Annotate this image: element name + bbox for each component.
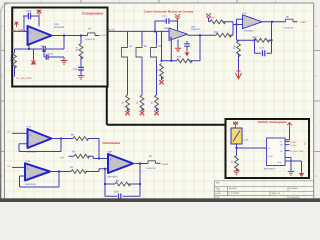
svg-text:COM: COM <box>268 155 273 158</box>
wire output U1A <box>52 35 88 37</box>
svg-text:C17: C17 <box>163 15 168 18</box>
resistor R40 to ground <box>231 148 239 171</box>
svg-text:Number: Number <box>229 187 237 190</box>
capacitor C17 decoupling <box>154 15 178 32</box>
junction S1 node <box>236 147 238 149</box>
svg-text:Switch Analogique: Switch Analogique <box>258 120 287 124</box>
svg-text:Potentiostat: Potentiostat <box>103 141 120 145</box>
wire U7A feedback loop <box>19 139 61 152</box>
wire U5A output <box>188 34 217 36</box>
svg-text:D_Mes: D_Mes <box>290 144 297 147</box>
title block <box>214 181 313 199</box>
title block text <box>216 182 300 200</box>
svg-text:U2A: U2A <box>243 12 248 15</box>
svg-text:-: - <box>30 142 31 146</box>
svg-text:GND: GND <box>277 161 282 164</box>
capacitor C15 in feedback <box>41 45 46 52</box>
ground red arrow below cap <box>185 50 190 56</box>
svg-text:MAX4251: MAX4251 <box>26 183 37 186</box>
power VCC arrow top <box>37 10 42 16</box>
svg-text:Comparateur: Comparateur <box>82 12 104 16</box>
wire U2A output <box>262 21 286 23</box>
ground red C18 <box>78 76 84 80</box>
zone labels <box>1 1 317 178</box>
wire V+ pin U5A <box>177 19 179 30</box>
svg-text:FUSE1-M: FUSE1-M <box>85 38 95 41</box>
wire feedback loop <box>15 36 65 50</box>
wire S1 to IC <box>237 144 267 148</box>
net label D1_HM_COM <box>285 150 303 153</box>
wire E2 input <box>12 166 25 168</box>
capacitor C19 feedback <box>254 39 273 56</box>
svg-text:U7B: U7B <box>26 160 31 163</box>
bottom dark band <box>0 198 320 202</box>
resistor R17 feedback <box>236 22 272 42</box>
junction feedback node <box>28 48 30 50</box>
ground red R40 <box>233 171 239 175</box>
junction U8A out <box>139 163 141 165</box>
jumper branch B2 <box>136 31 148 111</box>
wire IC gnd pins <box>285 158 302 172</box>
no-ERC cross B3 <box>154 111 158 115</box>
resistor R33 to ground <box>233 40 241 71</box>
ground red bars V- U5A <box>175 40 181 52</box>
svg-text:+: + <box>27 167 29 171</box>
capacitor C16 row <box>44 49 64 60</box>
svg-text:R12: R12 <box>177 56 182 59</box>
wire feedback column + input <box>170 38 172 61</box>
decoupling cap below U5A <box>184 41 190 50</box>
svg-text:-: - <box>170 30 171 33</box>
svg-text:D1_HM_COM: D1_HM_COM <box>17 77 32 80</box>
fuse B6 on Imes output <box>284 16 298 30</box>
svg-text:S_Mes: S_Mes <box>290 141 296 144</box>
svg-text:Date:: Date: <box>216 192 222 195</box>
svg-text:R34: R34 <box>214 31 219 34</box>
resistor R6 <box>61 134 108 160</box>
capacitor C18 vertical <box>73 67 84 75</box>
svg-text:FUSE1-M: FUSE1-M <box>284 27 294 30</box>
jumper branch B1 <box>122 31 134 111</box>
junction right branch <box>80 35 82 37</box>
op-amp U7B follower <box>25 160 50 186</box>
svg-text:R10: R10 <box>10 56 13 61</box>
svg-text:C20: C20 <box>114 191 119 194</box>
svg-text:MAX4594-T: MAX4594-T <box>264 167 276 170</box>
junction U7B out <box>58 171 60 173</box>
sheet border frame <box>5 3 314 198</box>
resistor R14 branch <box>156 31 164 80</box>
wire U7B feedback loop <box>20 172 60 188</box>
svg-text:MAX4251: MAX4251 <box>108 176 119 179</box>
svg-text:-: - <box>110 168 111 172</box>
resistor R7 <box>69 150 94 158</box>
op-amp U7A follower <box>27 126 52 154</box>
svg-text:-: - <box>30 38 31 42</box>
IC U9 MAX4594 <box>264 138 285 170</box>
window left edge <box>0 10 1 202</box>
fuse B7 on output <box>85 28 100 42</box>
svg-text:D1_HM_COM: D1_HM_COM <box>290 150 303 153</box>
no-ERC cross B1 <box>125 111 129 115</box>
resistor R37 <box>209 17 234 25</box>
svg-text:R17: R17 <box>253 36 258 39</box>
jumper S1 yellow <box>231 128 249 144</box>
svg-text:Sheet of: Sheet of <box>272 192 281 195</box>
svg-text:+: + <box>30 30 32 34</box>
svg-text:MAX4251: MAX4251 <box>191 28 201 31</box>
svg-text:Vcmd: Vcmd <box>100 34 106 37</box>
section box Contre Electrode boundary <box>107 87 226 125</box>
svg-text:+: + <box>30 133 32 137</box>
svg-text:U7A: U7A <box>27 126 32 129</box>
svg-text:FUSE1-M: FUSE1-M <box>146 167 156 170</box>
svg-text:U5A: U5A <box>191 26 196 29</box>
resistor R12 <box>177 56 193 63</box>
wire branch row to R12 <box>162 35 201 61</box>
svg-text:U8A: U8A <box>108 151 113 154</box>
svg-text:R37: R37 <box>211 17 216 20</box>
svg-text:S-2P: S-2P <box>244 139 249 142</box>
zone tick marks <box>0 0 320 152</box>
svg-text:C19: C19 <box>260 47 265 50</box>
wire input <box>11 30 28 32</box>
wire cap to op-amp V+ <box>24 16 39 31</box>
power VCC fork R37 <box>206 13 211 18</box>
junction output U5A <box>199 34 201 36</box>
section box Comparateur <box>12 8 107 87</box>
svg-text:-: - <box>27 175 28 179</box>
no-ERC cross R14 <box>159 80 163 84</box>
svg-text:Imes: Imes <box>301 21 307 24</box>
power VREF stub below feedback <box>31 49 36 64</box>
no-ERC cross B2 <box>140 111 144 115</box>
svg-text:Vmes: Vmes <box>162 163 169 166</box>
svg-text:C10: C10 <box>27 10 32 13</box>
wire main bus <box>108 30 169 32</box>
window corner arc <box>1 3 10 13</box>
resistor R4 <box>59 166 108 173</box>
svg-text:Vref: Vref <box>60 157 65 160</box>
junction output node <box>63 35 65 37</box>
wire U8A output <box>133 163 148 165</box>
wire E1 input <box>12 132 28 134</box>
svg-text:C16: C16 <box>49 53 54 56</box>
wires into U2A inputs <box>233 19 243 40</box>
ground red arrow R33 <box>235 71 241 79</box>
op-amp U5A <box>169 26 201 41</box>
ground red IC 2 <box>299 171 304 177</box>
capacitor C20 feedback <box>105 183 141 199</box>
fuse B4 on Vmes output <box>146 155 161 170</box>
capacitor C10 <box>23 10 39 19</box>
op-amp U2A <box>243 12 263 33</box>
svg-text:+: + <box>110 158 112 162</box>
svg-text:Contre Electrode/ Mesure de Co: Contre Electrode/ Mesure de Courant <box>144 10 193 14</box>
power VCC arrow above IC <box>285 123 292 140</box>
op-amp U1A <box>28 23 66 45</box>
resistor R10 vertical <box>10 49 17 77</box>
svg-text:MAX4251: MAX4251 <box>54 26 65 29</box>
junction output U2A <box>271 21 273 23</box>
power VREF small above DAC label <box>15 22 19 27</box>
svg-text:Revision: Revision <box>290 187 299 190</box>
svg-text:R13: R13 <box>76 46 79 51</box>
svg-text:C18: C18 <box>73 68 78 71</box>
power VCC fork U5A <box>175 14 180 19</box>
ground red IC 1 <box>288 172 294 176</box>
jumper branch B3 <box>151 31 163 111</box>
svg-text:MAX4251: MAX4251 <box>244 29 254 32</box>
resistor R13 vertical branch <box>76 36 83 67</box>
resistor R34 <box>214 25 233 38</box>
svg-text:17-12-2007: 17-12-2007 <box>228 192 240 195</box>
junction U7A out <box>60 138 62 140</box>
power VCC arrow above S1 <box>233 122 238 128</box>
section box Switch Analogique <box>226 119 310 178</box>
resistor R8 feedback <box>104 164 140 186</box>
ground red C16 <box>61 61 67 65</box>
op-amp U8A <box>108 151 134 179</box>
pin wires and net labels Mes <box>285 141 297 147</box>
